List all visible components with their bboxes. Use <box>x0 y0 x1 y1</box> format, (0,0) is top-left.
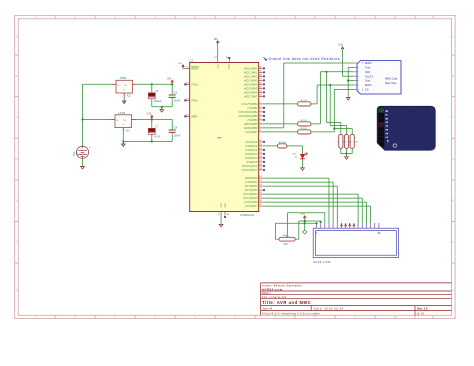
wire ground rail of 7805 filters <box>152 106 172 108</box>
pin (T1)PB1 number 2 <box>259 107 263 109</box>
svg-text:R2 1K: R2 1K <box>301 120 308 122</box>
capacitor C6 100nF <box>171 84 173 94</box>
svg-text:Output line does not need Resi: Output line does not need Resistors <box>269 57 340 61</box>
svg-text:Rear View: Rear View <box>385 82 397 85</box>
pin (TXD)PD1 number 15 <box>259 181 263 183</box>
svg-text:2.0 GB: 2.0 GB <box>408 115 417 119</box>
pin (TCK)PC2 number 24 <box>259 149 263 151</box>
pin (ADC0)PA0 number 40 <box>259 67 263 69</box>
svg-text:(MISO)PB6: (MISO)PB6 <box>244 127 258 130</box>
wire MOSI row to connector <box>317 84 353 86</box>
resistor R8 <box>278 144 287 148</box>
svg-text:VCC: VCC <box>216 64 218 69</box>
svg-text:9V: 9V <box>76 152 79 155</box>
pin (MOSI)PB5 number 6 <box>259 123 263 125</box>
svg-text:(ADC5)PA5: (ADC5)PA5 <box>244 87 258 90</box>
svg-text:10K: 10K <box>283 243 288 246</box>
connector pin Vcc3.3 <box>353 75 359 77</box>
wire battery to LF33 input <box>83 119 112 121</box>
svg-text:1: 1 <box>316 231 318 235</box>
svg-text:+5V: +5V <box>167 77 172 80</box>
svg-text:5: 5 <box>385 121 389 123</box>
pin (TMS)PC3 number 25 <box>259 153 263 155</box>
pin (INT0)PD2 number 16 <box>259 185 263 187</box>
wire PB6 MISO direct line <box>263 127 284 129</box>
wire PC1 to R8 <box>263 145 278 147</box>
svg-text:MOSI: MOSI <box>365 83 372 87</box>
no-connect arrow LCD data pin 8 <box>345 224 347 227</box>
wire PB7 to R3 <box>263 131 298 133</box>
svg-text:E: E <box>452 198 454 202</box>
svg-text:2x16 LCD: 2x16 LCD <box>313 260 331 264</box>
svg-text:(TOSC2)PC7: (TOSC2)PC7 <box>242 169 258 172</box>
svg-text:D1: D1 <box>295 157 299 159</box>
pin XTAL2 no-connect <box>186 83 190 85</box>
connector pin MISO <box>353 62 359 64</box>
pin (ADC5)PA5 number 35 <box>259 87 263 89</box>
wire GND rail LCD <box>275 222 316 224</box>
pin (TDI)PC5 number 27 <box>259 161 263 163</box>
junction battery to LF33 input <box>81 118 83 120</box>
connector pin Gnd <box>353 66 359 68</box>
junction SCK divider tap <box>325 71 327 73</box>
svg-text:avr: avr <box>217 136 221 140</box>
svg-text:MISO: MISO <box>365 61 372 65</box>
svg-text:Id: 1/1: Id: 1/1 <box>417 311 425 315</box>
svg-text:(TOSC1)PC6: (TOSC1)PC6 <box>242 165 258 168</box>
wire MOSI divider tap to R5 <box>329 85 331 126</box>
svg-text:(OC1A)PD5: (OC1A)PD5 <box>243 197 258 200</box>
ground below LED <box>301 166 305 170</box>
svg-text:XTAL2: XTAL2 <box>191 83 199 86</box>
svg-text:G: G <box>452 288 454 292</box>
pin AVCC no-connect <box>228 59 230 63</box>
svg-text:11: 11 <box>218 214 221 216</box>
wire CS divider tap to R6 divider <box>334 128 352 130</box>
svg-text:31: 31 <box>227 214 230 216</box>
svg-text:A: A <box>452 35 454 39</box>
ground below battery <box>82 158 84 165</box>
svg-text:(INT1)PD3: (INT1)PD3 <box>245 189 258 192</box>
svg-text:(ADC0)PA0: (ADC0)PA0 <box>244 67 258 70</box>
junction at C7 top <box>151 118 153 120</box>
svg-text:1: 1 <box>385 136 389 138</box>
pin (ADC4)PA4 number 36 <box>259 83 263 85</box>
svg-text:(INT2/AIN0)PB2: (INT2/AIN0)PB2 <box>238 111 258 114</box>
svg-text:SCK: SCK <box>365 70 371 74</box>
connector pin CS <box>353 88 359 90</box>
resistor R4 divider <box>339 134 343 148</box>
svg-text:LF33: LF33 <box>118 111 125 115</box>
pin (OC2)PD7 number 21 <box>259 205 263 207</box>
svg-text:Gnd: Gnd <box>365 79 370 83</box>
svg-text:(ICP1)PD6: (ICP1)PD6 <box>245 201 259 204</box>
pin stubs U1 <box>112 83 116 85</box>
regulator U2 LF33 <box>115 115 132 128</box>
svg-text:3: 3 <box>385 129 389 131</box>
wire R1 to MOSI riser <box>311 103 317 105</box>
capacitor C8 100nF <box>171 120 173 130</box>
pin (TOSC1)PC6 number 28 <box>259 165 263 167</box>
junction connector ground <box>347 80 349 82</box>
pin VCC with +5V <box>217 59 219 63</box>
svg-text:F: F <box>16 240 18 244</box>
svg-text:100nF: 100nF <box>174 99 181 102</box>
ground diamond below LCD rails <box>302 230 307 234</box>
wire 7805 output +5V rail <box>137 83 173 85</box>
svg-text:(TDO)PC4: (TDO)PC4 <box>245 157 258 160</box>
svg-text:AVCC: AVCC <box>228 64 231 70</box>
title block <box>261 283 452 315</box>
wire SCK row to connector <box>320 71 353 73</box>
pin (ICP1)PD6 number 20 <box>259 201 263 203</box>
svg-text:AREF: AREF <box>191 115 198 118</box>
resistor R3 <box>298 130 311 134</box>
svg-text:File: noname.sch: File: noname.sch <box>262 295 287 299</box>
wire ground rail of LF33 filters <box>122 132 124 142</box>
regulator U1 7805 <box>116 80 133 93</box>
wire divider ground rail <box>341 153 352 155</box>
LED D1 <box>300 154 305 158</box>
resistor R6 divider <box>350 134 354 148</box>
wire LED cathode to ground <box>302 159 304 167</box>
no-connect arrow LCD data pin 10 <box>353 224 355 227</box>
pin (SCK)PB7 number 8 <box>259 131 263 133</box>
svg-text:(OC0/AIN1)PB3: (OC0/AIN1)PB3 <box>238 115 258 118</box>
svg-text:D: D <box>15 157 17 161</box>
pin (TOSC2)PC7 number 29 <box>259 169 263 171</box>
svg-text:(XCK/T0)PB0: (XCK/T0)PB0 <box>241 103 258 106</box>
svg-text:(SCL)PC0: (SCL)PC0 <box>245 141 258 144</box>
svg-text:(ADC1)PA1: (ADC1)PA1 <box>244 71 258 74</box>
ground below LF33 filter caps <box>122 141 124 142</box>
microcontroller IC1 ATMEGA16 <box>190 63 259 212</box>
wire PD to LCD pin 12 <box>263 197 363 199</box>
svg-text:R3 1K: R3 1K <box>301 128 308 130</box>
pin (SCL)PC0 number 22 <box>259 141 263 143</box>
svg-text:2K2: 2K2 <box>355 141 358 143</box>
pin (SDA)PC1 number 23 <box>259 145 263 147</box>
connector pin Gnd <box>353 80 359 82</box>
svg-text:(TMS)PC3: (TMS)PC3 <box>245 153 258 156</box>
connector P1 MMC card socket <box>357 61 401 94</box>
pin (OC1A)PD5 number 19 <box>259 197 263 199</box>
junction ground rail <box>161 106 163 108</box>
junction divider ground <box>345 153 347 155</box>
wire 3.3V to connector Vcc pin <box>343 75 354 77</box>
wire PB0 to R1 <box>263 103 298 105</box>
svg-text:7: 7 <box>385 114 389 116</box>
svg-text:ATMEGA16: ATMEGA16 <box>240 213 255 217</box>
svg-text:MMC Card: MMC Card <box>385 77 398 80</box>
junction +5V drop <box>304 220 306 222</box>
svg-text:1000uF: 1000uF <box>153 100 162 103</box>
junction LCD pin2 vcc <box>320 221 322 223</box>
svg-text:Rev: 1.0: Rev: 1.0 <box>417 307 428 311</box>
power symbol 3.3V at LF33 output <box>151 115 153 119</box>
wire battery positive to regulators <box>82 84 84 146</box>
wire PB5 to R2 <box>263 123 298 125</box>
ground below divider resistors <box>346 154 348 156</box>
junction CS divider tap <box>333 128 335 130</box>
wire LF33 output 3.3V rail <box>136 119 173 121</box>
potentiometer RV1 <box>279 237 295 241</box>
svg-text:(T1)PB1: (T1)PB1 <box>248 107 259 110</box>
svg-text:VO: VO <box>124 85 127 87</box>
svg-text:IC2: IC2 <box>127 95 131 98</box>
note output line does not need resistors <box>264 57 267 60</box>
svg-text:LED: LED <box>292 153 296 155</box>
svg-text:Title: AVR and MMC: Title: AVR and MMC <box>262 300 311 305</box>
capacitor C5 1000uF <box>151 84 153 92</box>
no-connect arrow LCD data pin 9 <box>349 224 351 227</box>
svg-text:IC1: IC1 <box>190 59 194 62</box>
svg-text:C7: C7 <box>155 126 159 129</box>
power symbol +5V at LCD <box>304 218 306 230</box>
svg-text:D: D <box>452 157 454 161</box>
pin (ADC7)PA7 number 33 <box>259 95 263 97</box>
svg-text:(OC2)PD7: (OC2)PD7 <box>245 205 258 208</box>
LCD module 2x16 outline <box>313 228 398 257</box>
svg-text:R8 330: R8 330 <box>279 142 287 144</box>
svg-text:2: 2 <box>337 141 338 143</box>
pin (TDO)PC4 number 26 <box>259 157 263 159</box>
pin GND with ground <box>220 212 222 216</box>
svg-text:RESET: RESET <box>191 67 200 70</box>
pin (INT1)PD3 number 17 <box>259 189 263 191</box>
pin (INT2/AIN0)PB2 number 3 <box>259 111 263 113</box>
wire CS row to connector <box>334 88 353 90</box>
svg-text:+5V: +5V <box>178 63 182 65</box>
pin (OC0/AIN1)PB3 number 4 <box>259 115 263 117</box>
ground below U1 7805 <box>123 97 125 101</box>
svg-text:C5: C5 <box>155 90 159 93</box>
pin XTAL1 no-connect <box>186 99 190 101</box>
LCD pin stubs <box>317 223 379 228</box>
svg-text:+5V: +5V <box>214 38 219 41</box>
connector pin MOSI <box>353 84 359 86</box>
resistor R2 <box>298 122 311 126</box>
svg-text:(TDI)PC5: (TDI)PC5 <box>246 161 258 164</box>
wire +5V rail LCD <box>299 220 321 222</box>
pin (RXD)PD0 number 14 <box>259 177 263 179</box>
wire PD to LCD pin 11 <box>263 193 358 195</box>
junction C7 bottom <box>151 140 153 142</box>
wire pot left to GND rail <box>277 238 279 240</box>
svg-text:IC3: IC3 <box>126 129 130 132</box>
pin (ADC6)PA6 number 34 <box>259 91 263 93</box>
svg-text:2K2: 2K2 <box>343 141 346 143</box>
svg-text:GND: GND <box>223 203 225 208</box>
svg-text:100nF: 100nF <box>174 134 181 137</box>
svg-text:(TCK)PC2: (TCK)PC2 <box>245 149 258 152</box>
svg-text:(ADC7)PA7: (ADC7)PA7 <box>244 95 258 98</box>
junction LCD pin1 gnd <box>315 222 317 224</box>
svg-text:(TXD)PD1: (TXD)PD1 <box>245 181 258 184</box>
junction MOSI divider tap <box>329 84 331 86</box>
wire pot right to +5V rail <box>295 238 298 240</box>
pin (ADC2)PA2 number 38 <box>259 75 263 77</box>
ground below connector <box>346 96 350 100</box>
svg-text:(ADC2)PA2: (ADC2)PA2 <box>244 75 258 78</box>
svg-text:CS: CS <box>365 88 369 92</box>
svg-text:G: G <box>15 288 17 292</box>
wire R6 to ground rail <box>351 148 353 153</box>
svg-text:GND: GND <box>219 203 221 208</box>
svg-text:(SCK)PB7: (SCK)PB7 <box>245 131 258 134</box>
pin (XCK/T0)PB0 number 1 <box>259 103 263 105</box>
svg-text:XTAL1: XTAL1 <box>191 99 199 102</box>
power symbol +5V at regulator output <box>171 80 173 84</box>
svg-text:C: C <box>452 115 454 119</box>
svg-text:(ADC3)PA3: (ADC3)PA3 <box>244 79 258 82</box>
wire PD to LCD pin 5 <box>263 181 333 183</box>
pin AREF no-connect <box>186 115 190 117</box>
pin (ADC3)PA3 number 37 <box>259 79 263 81</box>
svg-text:(SDA)PC1: (SDA)PC1 <box>245 145 258 148</box>
svg-text:2: 2 <box>343 141 344 143</box>
svg-text:R1 1K: R1 1K <box>301 100 308 102</box>
svg-text:C8: C8 <box>174 127 178 130</box>
resistor R1 <box>298 102 311 106</box>
wire R4 to ground rail <box>340 148 342 153</box>
svg-text:F: F <box>453 240 455 244</box>
svg-text:A: A <box>16 35 18 39</box>
svg-text:10: 10 <box>214 57 217 59</box>
svg-text:B: B <box>16 74 18 78</box>
svg-text:16: 16 <box>377 231 381 235</box>
svg-text:E: E <box>16 198 18 202</box>
wire SCK divider tap to R4 divider <box>325 72 327 123</box>
power symbol 3.3V at connector <box>342 49 344 76</box>
svg-text:Gnd: Gnd <box>365 66 370 70</box>
wire connector ground pins <box>348 66 353 68</box>
svg-text:(INT0)PD2: (INT0)PD2 <box>245 185 258 188</box>
svg-text:3.3V: 3.3V <box>338 43 343 46</box>
wire PD to LCD pin 4 <box>263 177 329 179</box>
svg-text:4.7uF: 4.7uF <box>154 136 161 139</box>
junction LF33 ground <box>122 140 124 142</box>
junction at C5 top <box>151 83 153 85</box>
pin stubs U2 <box>111 119 115 121</box>
svg-text:AVR8A.com: AVR8A.com <box>262 287 283 291</box>
svg-text:(MOSI)PB5: (MOSI)PB5 <box>244 123 258 126</box>
svg-text:(SS)PB4: (SS)PB4 <box>247 119 258 122</box>
svg-text:(ADC6)PA6: (ADC6)PA6 <box>244 91 258 94</box>
svg-text:(RXD)PD0: (RXD)PD0 <box>245 177 258 180</box>
svg-text:(OC1B)PD4: (OC1B)PD4 <box>243 193 258 196</box>
svg-text:C: C <box>15 115 17 119</box>
pin (SS)PB4 number 5 <box>259 119 263 121</box>
svg-text:2: 2 <box>385 132 389 134</box>
svg-text:+: + <box>89 145 91 149</box>
no-connect arrow LCD data pin 7 <box>340 224 342 227</box>
resistor R5 divider <box>344 134 348 148</box>
svg-text:6: 6 <box>385 118 389 120</box>
junction at C6 top <box>171 83 173 85</box>
wire R5 to ground rail <box>346 148 348 153</box>
pin RESET with +5V tie <box>186 67 190 69</box>
wire pot wiper to LCD pin 3 <box>287 213 289 234</box>
wire PD to LCD pin 14 <box>263 205 371 207</box>
svg-text:KiCad E.D.A. eeschema 4.0.0-r: KiCad E.D.A. eeschema 4.0.0-rc1-stable <box>262 311 320 315</box>
svg-text:7805: 7805 <box>120 76 127 80</box>
svg-text:8: 8 <box>385 110 389 112</box>
svg-text:Date: 2016-02-29: Date: 2016-02-29 <box>314 307 344 311</box>
svg-text:C6: C6 <box>174 92 178 95</box>
pin (OC1B)PD4 number 18 <box>259 193 263 195</box>
svg-text:2: 2 <box>349 141 350 143</box>
junction GND drop <box>304 222 306 224</box>
pin (MISO)PB6 number 7 <box>259 127 263 129</box>
svg-text:B: B <box>452 74 454 78</box>
ground below 7805 filter caps <box>161 107 163 109</box>
svg-text:Vcc3.3: Vcc3.3 <box>365 74 373 78</box>
svg-text:(ADC4)PA4: (ADC4)PA4 <box>244 83 258 86</box>
capacitor C7 4.7uF <box>151 120 153 129</box>
wire PD to LCD pin 6 <box>263 185 338 187</box>
svg-text:Size: A4: Size: A4 <box>263 307 273 311</box>
svg-text:3.3V: 3.3V <box>146 113 151 116</box>
pin (ADC1)PA1 number 39 <box>259 71 263 73</box>
svg-text:4: 4 <box>385 125 389 127</box>
battery BT1 <box>76 146 88 158</box>
wire R2 to SCK riser <box>311 123 321 125</box>
wire R3 to CS riser <box>311 131 334 133</box>
pin AGND no-connect <box>224 212 226 216</box>
svg-text:Sheet: /: Sheet: / <box>262 291 271 295</box>
connector pin SCK <box>353 71 359 73</box>
wire R8 to LED D1 <box>287 145 303 147</box>
svg-text:VO: VO <box>123 120 126 122</box>
wire PD to LCD pin 13 <box>263 201 367 203</box>
